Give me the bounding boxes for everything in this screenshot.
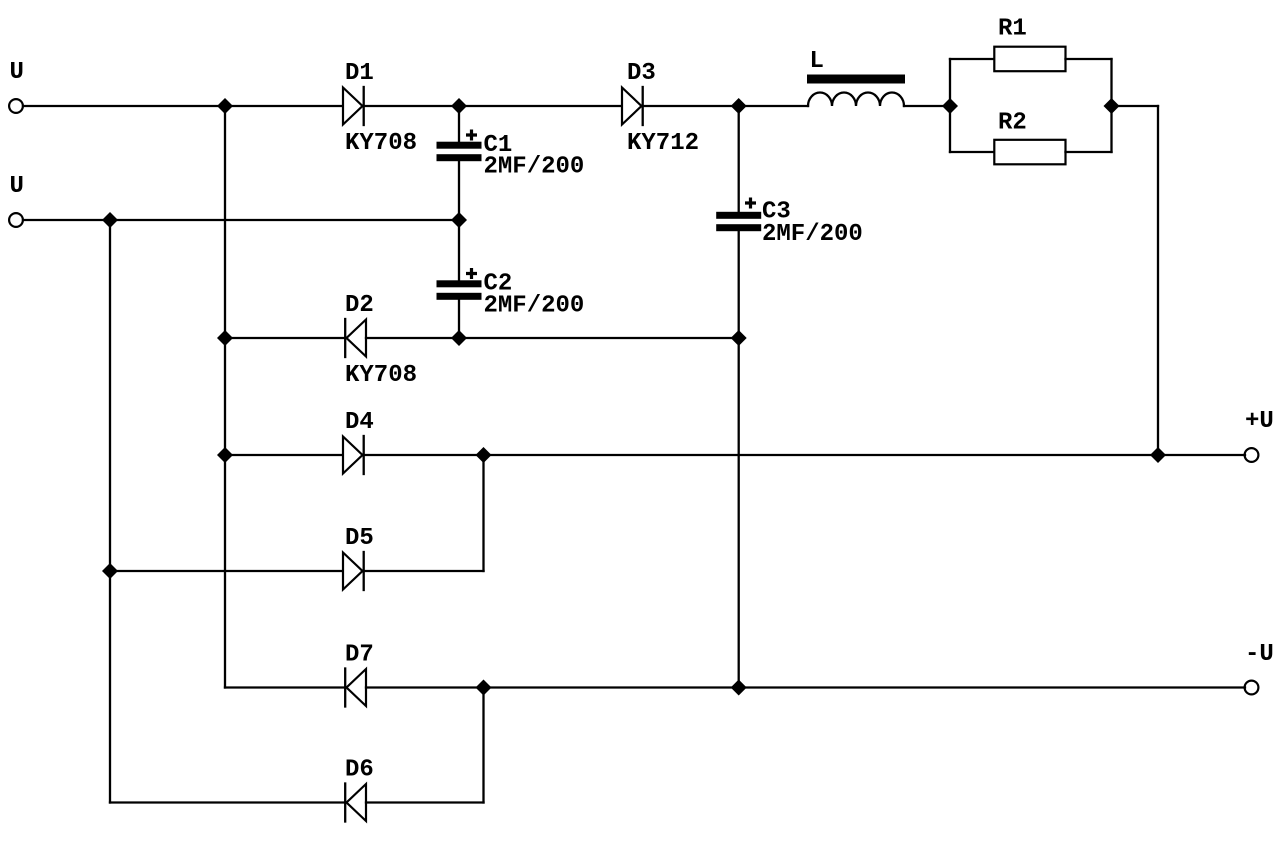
diode D3 bbox=[622, 87, 643, 125]
wire D5 row right bbox=[365, 570, 484, 572]
wire D4 row left bbox=[225, 454, 343, 456]
junction at top row / C1 branch bbox=[451, 98, 467, 114]
junction at D5 row / x=110 bus bbox=[102, 563, 118, 579]
wire vertical C1 top lead bbox=[458, 106, 460, 144]
wire D2 row right bbox=[366, 337, 739, 339]
svg-text:R1: R1 bbox=[998, 16, 1027, 43]
junction at +U row / x=225 bus bbox=[217, 447, 233, 463]
junction at top row / x=225 bus bbox=[217, 98, 233, 114]
svg-text:KY712: KY712 bbox=[627, 130, 699, 157]
polarity + of C3 bbox=[745, 198, 756, 209]
junction at -U row / D6 branch bbox=[476, 680, 492, 696]
wire vertical D6 to D7 junction bbox=[482, 688, 484, 803]
diode D7 bbox=[345, 669, 366, 707]
svg-text:D5: D5 bbox=[345, 525, 374, 552]
junction at top row / R-network right bbox=[1104, 98, 1120, 114]
inductor L (winding) bbox=[808, 93, 904, 107]
inductor L core bar bbox=[807, 75, 905, 84]
svg-text:2MF/200: 2MF/200 bbox=[484, 293, 585, 320]
wire D6 row right bbox=[366, 801, 484, 803]
diode D1 bbox=[343, 87, 364, 125]
svg-text:KY708: KY708 bbox=[345, 130, 417, 157]
svg-text:2MF/200: 2MF/200 bbox=[762, 221, 863, 248]
wire D5 row left bbox=[110, 570, 343, 572]
terminal -U (output) bbox=[1245, 681, 1259, 695]
svg-text:D4: D4 bbox=[345, 409, 374, 436]
wire R-network top left bbox=[950, 58, 994, 60]
svg-text:2MF/200: 2MF/200 bbox=[484, 154, 585, 181]
wire R-network bottom right bbox=[1066, 151, 1112, 153]
polarity + of C2 bbox=[466, 268, 477, 279]
svg-text:-U: -U bbox=[1245, 641, 1274, 668]
junction at second row / C1-C2 node bbox=[451, 212, 467, 228]
svg-text:L: L bbox=[810, 48, 824, 75]
junction at +U row / D5 branch bbox=[476, 447, 492, 463]
svg-text:R2: R2 bbox=[998, 110, 1027, 137]
wire vertical C3 bottom lead down to -U row bbox=[738, 228, 740, 688]
junction at +U row / R-network drop bbox=[1150, 447, 1166, 463]
capacitor C3 bbox=[716, 212, 761, 231]
svg-text:U: U bbox=[10, 59, 24, 86]
wire top row: D3 cathode to inductor L bbox=[644, 105, 808, 107]
diode D6 bbox=[345, 784, 366, 822]
wire D6 row left bbox=[110, 801, 345, 803]
junction at D2 row / x=225 bus bbox=[217, 330, 233, 346]
wire vertical between C1 and C2 bbox=[458, 158, 460, 283]
junction at D2 row / C2 bottom bbox=[451, 330, 467, 346]
svg-text:KY708: KY708 bbox=[345, 362, 417, 389]
junction at top row / R-network left bbox=[942, 98, 958, 114]
wire R-network to down-corner bbox=[1112, 105, 1159, 107]
wire D7 row left bbox=[225, 686, 345, 688]
junction at D2 row / C3 branch bbox=[731, 330, 747, 346]
diode D4 bbox=[343, 436, 364, 474]
wire down to +U row bbox=[1157, 106, 1159, 455]
wire top row: inductor L to R-network bbox=[904, 105, 950, 107]
wire R-network right vertical bbox=[1110, 59, 1112, 152]
diode D5 bbox=[343, 552, 364, 590]
svg-text:+U: +U bbox=[1245, 408, 1274, 435]
wire vertical left bus at x=110 bbox=[109, 220, 111, 803]
svg-text:D6: D6 bbox=[345, 757, 374, 784]
resistor R1 bbox=[994, 47, 1065, 71]
svg-text:D3: D3 bbox=[627, 60, 656, 87]
junction at second row / x=110 bus bbox=[102, 212, 118, 228]
polarity + of C1 bbox=[466, 130, 477, 141]
wire second row: U terminal to capacitor node bbox=[23, 219, 459, 221]
junction at top row / C3 branch bbox=[731, 98, 747, 114]
terminal U (top input) bbox=[9, 99, 23, 113]
resistor R2 bbox=[994, 140, 1065, 165]
wire vertical C2 bottom lead bbox=[458, 297, 460, 339]
wire top row: U terminal to D1 anode bbox=[23, 105, 343, 107]
junction at -U row / C3 branch bbox=[731, 680, 747, 696]
wire vertical D5 to D4 junction bbox=[482, 455, 484, 571]
svg-text:D7: D7 bbox=[345, 642, 374, 669]
wire D2 row left bbox=[225, 337, 345, 339]
terminal U (second input) bbox=[9, 213, 23, 227]
svg-text:D1: D1 bbox=[345, 60, 374, 87]
wire +U row: D4 cathode to +U terminal bbox=[365, 454, 1245, 456]
wire -U row: D7 to -U terminal bbox=[366, 686, 1245, 688]
svg-text:U: U bbox=[10, 173, 24, 200]
wire top row: D1 cathode to D3 anode bbox=[365, 105, 622, 107]
wire R-network bottom left bbox=[950, 151, 994, 153]
terminal +U (output) bbox=[1245, 448, 1259, 462]
capacitor C2 bbox=[437, 280, 482, 300]
wire vertical from top row through C3 to minus row: upper part bbox=[738, 106, 740, 215]
wire R-network left vertical bbox=[949, 59, 951, 152]
capacitor C1 bbox=[437, 142, 482, 162]
wire R-network top right bbox=[1066, 58, 1112, 60]
svg-text:D2: D2 bbox=[345, 292, 374, 319]
wire vertical bus at x=225 bbox=[224, 106, 226, 688]
diode D2 bbox=[345, 319, 366, 357]
